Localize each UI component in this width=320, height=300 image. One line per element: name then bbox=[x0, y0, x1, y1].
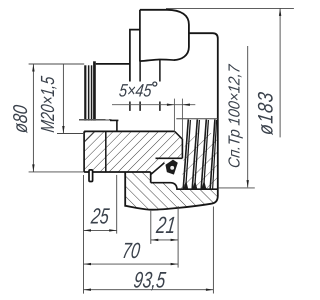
extension x=116.7 bbox=[116, 175, 118, 234]
thread flank pair 1 bbox=[183, 119, 188, 189]
collar (left flange of dome) bbox=[130, 30, 140, 82]
sleeve top edge bbox=[84, 130, 175, 132]
svg-text:93,5: 93,5 bbox=[132, 268, 167, 293]
corner hatch line bbox=[85, 132, 95, 142]
silhouette line x=130 bbox=[129, 102, 131, 111]
svg-text:Сп.Тр 100×12,7: Сп.Тр 100×12,7 bbox=[226, 63, 244, 169]
dimension 70 bbox=[84, 263, 179, 265]
extension x=213.4 bbox=[212, 207, 214, 294]
dimension 93,5 bbox=[84, 289, 214, 291]
svg-text:25: 25 bbox=[89, 205, 111, 229]
thread flank pair 3 bbox=[201, 119, 206, 189]
svg-text:M20×1,5: M20×1,5 bbox=[37, 75, 58, 134]
bore crest thin line bbox=[176, 118, 217, 120]
svg-text:ø183: ø183 bbox=[255, 90, 278, 136]
dimension Cп.Тр line bbox=[247, 46, 249, 187]
nut bore chamfer bbox=[175, 132, 183, 159]
tube outline thin part bbox=[79, 119, 110, 121]
svg-text:70: 70 bbox=[121, 240, 142, 264]
seal O-ring circle bbox=[170, 165, 175, 170]
pin lug under sleeve bbox=[89, 170, 93, 182]
extension line y=171.9 left bbox=[29, 171, 84, 173]
thread runout wedge 2 bbox=[192, 181, 197, 190]
sleeve inner boundary line bbox=[105, 131, 107, 172]
sleeve left edge bbox=[83, 131, 85, 172]
dimension 21 bbox=[151, 239, 178, 241]
extension line top right y=8.4 bbox=[166, 7, 294, 9]
thread flank pair 2 bbox=[192, 119, 197, 189]
silhouette line x=140 bbox=[139, 61, 141, 111]
extension x=178.1 bbox=[177, 206, 179, 268]
5x45 chamfer dimension arrows bbox=[167, 104, 175, 106]
dimension M20x1,5 line bbox=[62, 64, 64, 134]
dimension φ183 line bbox=[279, 8, 281, 137]
groove left wall bbox=[150, 172, 152, 183]
hatch region B: bottom flange section bbox=[125, 172, 218, 210]
bottom left extension line x=83.5 bbox=[83, 175, 85, 294]
thread bars of M20 relief bbox=[84, 65, 86, 120]
thread runout wedge 1 bbox=[183, 181, 188, 190]
extension x=150.8 bbox=[150, 211, 152, 244]
silhouette line x=160 bbox=[159, 60, 161, 111]
tube step edge bbox=[116, 121, 118, 132]
svg-text:ø80: ø80 bbox=[9, 104, 31, 134]
thread zone bottom line bbox=[185, 188, 218, 190]
thread flank pair 4 bbox=[210, 119, 215, 189]
dome top and arc bbox=[140, 10, 189, 60]
extension line y=133.5 bbox=[57, 133, 84, 135]
svg-text:21: 21 bbox=[154, 212, 177, 238]
sleeve bottom edge bbox=[84, 171, 151, 173]
axis dash line left bbox=[79, 119, 112, 121]
dimension 25 bbox=[84, 229, 117, 231]
nut step from dome, right edge, bottom curve bbox=[125, 33, 218, 209]
extension line y=187.9 right bbox=[219, 187, 255, 189]
centerline bbox=[112, 104, 195, 106]
extension line top left y=64 bbox=[29, 63, 85, 65]
sleeve neck top silhouette edge bbox=[96, 63, 131, 65]
thread runout wedge 3 bbox=[201, 181, 206, 190]
tube outline thick part bbox=[110, 119, 118, 121]
dome bottom edge bbox=[139, 59, 174, 61]
5x45 extension lines bbox=[173, 99, 175, 131]
dome left edge bbox=[139, 10, 141, 61]
hatch region C: nut thread zone section bbox=[181, 133, 217, 189]
svg-text:5×45: 5×45 bbox=[118, 81, 154, 101]
dimension φ80 line bbox=[32, 64, 34, 172]
seal wedge bbox=[166, 160, 177, 174]
groove diagonal seat bbox=[151, 163, 165, 175]
hatch region A: sleeve section bbox=[84, 131, 182, 174]
sleeve lower bottom edge bbox=[156, 157, 183, 159]
flange top edge and step bbox=[151, 183, 185, 190]
